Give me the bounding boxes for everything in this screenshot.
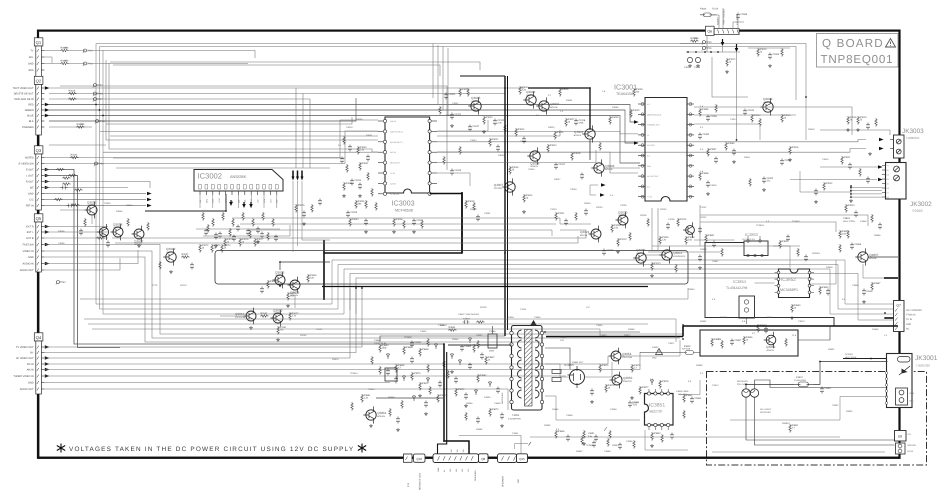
svg-text:R3203: R3203 (596, 206, 603, 209)
svg-text:Q3852: Q3852 (766, 345, 776, 349)
svg-text:TP27: TP27 (97, 98, 103, 101)
svg-text:Q3005: Q3005 (471, 96, 481, 100)
wire left trunk to bottom border (38, 394, 40, 457)
IC IC3001 TEA6415C body (645, 98, 687, 202)
svg-text:R3206: R3206 (662, 236, 669, 239)
svg-text:R3040: R3040 (446, 114, 453, 117)
svg-text:R3045: R3045 (498, 154, 505, 157)
svg-text:D3855: D3855 (484, 396, 491, 399)
svg-text:AUDIO OUT: AUDIO OUT (20, 388, 34, 391)
svg-text:SIF: SIF (30, 187, 34, 190)
svg-text:BONTB: BONTB (637, 252, 645, 255)
components around Q3001 Q3002 (519, 86, 521, 95)
resistors R3075-R3077 below IC3002 (224, 238, 226, 247)
connector JK3002 (886, 163, 907, 200)
svg-text:SPEAKER +: SPEAKER + (474, 469, 477, 481)
IC3002 bold jumper arrows (292, 171, 294, 178)
svg-text:C3857: C3857 (734, 339, 741, 342)
svg-text:DEGAUSS COIL: DEGAUSS COIL (419, 472, 422, 490)
svg-text:SCL: SCL (29, 56, 34, 59)
svg-text:R3012: R3012 (729, 58, 736, 61)
thick wire bottom rail (39, 457, 900, 459)
svg-text:TL431ACLPM: TL431ACLPM (726, 286, 747, 290)
svg-text:G8: G8 (898, 435, 902, 439)
junction dot row under Q6 (686, 51, 740, 53)
parts below IC3851 row (581, 436, 583, 445)
svg-text:R3895: R3895 (544, 424, 551, 427)
wire bus into IC3003 pin row 131 (100, 130, 378, 132)
wire mid rows to IC3001 area (113, 157, 345, 159)
svg-text:Q15: Q15 (519, 457, 525, 461)
resistors near Q3057 (84, 218, 86, 227)
title box Q BOARD (817, 34, 899, 68)
svg-text:R3865: R3865 (406, 346, 413, 349)
extra parts upper middle (444, 93, 448, 100)
wire Q2 green row (49, 110, 634, 143)
svg-text:R3874: R3874 (602, 364, 609, 367)
connector Q5 (34, 214, 43, 222)
svg-text:C3049: C3049 (570, 188, 577, 191)
svg-text:R3856: R3856 (746, 336, 753, 339)
svg-text:C3206: C3206 (668, 218, 675, 221)
transistor Q3854 (611, 351, 621, 361)
wire Q5-Q4 trunk (38, 272, 40, 341)
cap C3801 in degauss box (820, 387, 824, 394)
wire long vertical x447 (60, 86, 447, 170)
wire right-top extra feeds (694, 107, 852, 135)
svg-text:BONTB: BONTB (574, 134, 582, 137)
svg-text:C3856: C3856 (534, 316, 541, 319)
wire Q4 row 369 (44, 352, 640, 370)
svg-text:C3066: C3066 (740, 13, 747, 16)
wire nets to JK3003 (694, 114, 796, 116)
svg-text:R3063: R3063 (352, 218, 359, 221)
wire right mid horizontals (700, 215, 868, 226)
svg-text:TP62: TP62 (60, 281, 66, 284)
fuse F3801 (794, 382, 814, 387)
svg-text:C3024: C3024 (354, 179, 361, 182)
svg-text:R3515: R3515 (784, 114, 791, 117)
svg-text:GND: GND (652, 357, 657, 360)
svg-text:R3864: R3864 (449, 326, 456, 329)
svg-text:D3860: D3860 (872, 328, 879, 331)
dashed AC section box (707, 372, 927, 466)
transistor Q3013 (273, 313, 283, 323)
svg-text:R3875: R3875 (634, 364, 641, 367)
transistor Q3015 (275, 275, 285, 285)
svg-text:R3024: R3024 (522, 86, 529, 89)
svg-text:Y1: Y1 (887, 165, 889, 168)
svg-text:R3060: R3060 (360, 146, 367, 149)
transistor Q3202 (686, 226, 695, 235)
svg-text:R3085: R3085 (612, 106, 619, 109)
wire protection box nets (640, 352, 682, 354)
svg-text:TV IN: TV IN (390, 172, 395, 175)
components near Q3019 (159, 261, 161, 270)
thick stub border 318 (885, 317, 898, 319)
svg-text:IC3002: IC3002 (198, 172, 223, 181)
wire IC3003 right nets (437, 120, 488, 131)
svg-text:C IN FUSE: C IN FUSE (736, 14, 739, 25)
transistor Q3861 (366, 410, 376, 420)
svg-text:D3854: D3854 (440, 324, 447, 327)
svg-text:VOUT: VOUT (218, 197, 221, 203)
svg-text:R3885: R3885 (874, 234, 881, 237)
svg-text:GND: GND (28, 382, 34, 385)
wire bus row 149 left of IC3003 (109, 63, 378, 152)
svg-text:R3854: R3854 (688, 288, 695, 291)
wire Q2 blk row (49, 98, 356, 121)
svg-text:C3091: C3091 (484, 212, 491, 215)
svg-text:DELTA EXT: DELTA EXT (390, 162, 401, 165)
svg-text:FB3801: FB3801 (782, 422, 790, 425)
svg-text:R3872: R3872 (458, 388, 465, 391)
wire Q6 feeds down (736, 52, 738, 140)
svg-text:C3863: C3863 (843, 217, 850, 220)
transistor Q3852 (766, 335, 776, 345)
svg-text:SPEAKER: SPEAKER (502, 476, 505, 487)
JK3002 pins (882, 165, 886, 167)
svg-text:R3880: R3880 (388, 396, 395, 399)
svg-text:C3312: C3312 (497, 119, 504, 122)
wire Q4 row 352 (44, 288, 356, 353)
svg-text:4.6: 4.6 (647, 185, 650, 188)
svg-text:R3885: R3885 (476, 428, 483, 431)
svg-text:AH-LOADY: AH-LOADY (760, 408, 772, 411)
svg-text:BONTB: BONTB (605, 168, 613, 171)
svg-text:P15: P15 (407, 482, 410, 487)
components in protection box (711, 338, 713, 347)
wire Q3 row 157 to IC3003 (44, 120, 378, 158)
svg-text:ANLYN: ANLYN (390, 120, 397, 123)
svg-text:IC3003: IC3003 (392, 199, 415, 208)
test points near Q2 (94, 84, 97, 87)
svg-text:BROWN: BROWN (908, 444, 917, 447)
svg-text:2SC2021B: 2SC2021B (235, 316, 246, 319)
protection box with Q3852 (700, 330, 798, 356)
svg-text:R3072: R3072 (202, 244, 209, 247)
transformer pin circles (510, 331, 513, 334)
junction dots various (95, 104, 97, 106)
svg-text:SWITCHING: SWITCHING (501, 392, 504, 404)
svg-text:C3869: C3869 (852, 284, 859, 287)
svg-text:R3873: R3873 (492, 408, 499, 411)
wire Q2 row 127 (49, 126, 92, 128)
svg-text:R3522: R3522 (826, 182, 833, 185)
svg-text:GREEN: GREEN (25, 109, 34, 112)
resistor network under IC3002 (202, 212, 204, 221)
gnd squiggle JK3003 (868, 152, 872, 156)
svg-text:C3068: C3068 (694, 66, 701, 69)
svg-text:C3898: C3898 (604, 450, 611, 453)
svg-text:V7: V7 (887, 192, 889, 195)
transistor Q3005 (471, 101, 481, 111)
connector Q6 top (706, 26, 715, 35)
svg-text:Q1: Q1 (36, 40, 42, 45)
extra parts left of IC3003 (343, 136, 345, 145)
svg-text:A5: A5 (887, 183, 889, 186)
svg-text:C3859: C3859 (566, 414, 573, 417)
svg-text:C3069: C3069 (772, 53, 779, 56)
svg-text:MELF-P32W: MELF-P32W (843, 220, 855, 223)
svg-text:R3514: R3514 (754, 114, 761, 117)
svg-text:DEGAUSS: DEGAUSS (760, 411, 771, 414)
svg-text:EXT R: EXT R (26, 226, 34, 229)
svg-text:BONTB: BONTB (472, 100, 480, 103)
svg-text:TP3850: TP3850 (404, 336, 412, 339)
transistor Q3011 (662, 250, 672, 260)
svg-text:C3052: C3052 (766, 177, 773, 180)
svg-text:Q3: Q3 (36, 148, 42, 153)
svg-text:R3870: R3870 (414, 372, 421, 375)
svg-text:BONTB: BONTB (274, 312, 282, 315)
wire extra top-left horizontals (110, 62, 480, 70)
components left of Q3851 (839, 230, 841, 239)
svg-text:C3043: C3043 (747, 109, 754, 112)
svg-text:S8: S8 (887, 196, 889, 199)
startup resistors (379, 344, 381, 353)
transistor Q3057 (87, 205, 97, 215)
svg-text:Q3861: Q3861 (377, 411, 387, 415)
svg-text:TYP6C W 16L: TYP6C W 16L (374, 342, 388, 345)
inductor rects left of Q3855 (552, 370, 561, 374)
IC IC3852 MC3458P1 (779, 269, 810, 298)
connector Q7 (894, 301, 905, 332)
svg-text:G6: G6 (887, 187, 889, 190)
svg-text:GND: GND (906, 323, 911, 326)
svg-text:R3027: R3027 (568, 118, 575, 121)
svg-text:C3047: C3047 (472, 125, 479, 128)
svg-text:BC847B: BC847B (377, 415, 385, 418)
connector JK3003 (894, 135, 905, 158)
svg-text:C3851: C3851 (414, 341, 421, 344)
wire Q5 rows to amp cluster (44, 226, 108, 228)
wire spur row 93.5 (303, 86, 505, 94)
svg-text:G3: G3 (887, 174, 889, 177)
wire IC3851 nets (679, 380, 701, 395)
staircase bus top-left of IC3003 (432, 44, 434, 99)
IC3003 pins right (432, 120, 437, 122)
wire Q7 feeds (845, 303, 894, 305)
svg-text:R3876: R3876 (608, 384, 615, 387)
connector G14 bottom small (404, 454, 413, 462)
svg-text:R3071: R3071 (290, 292, 297, 295)
svg-text:R3044: R3044 (526, 194, 533, 197)
transistor Q3016 (290, 280, 300, 290)
caption asterisk left (57, 444, 65, 453)
svg-text:R3877: R3877 (642, 386, 649, 389)
svg-text:BY: BY (30, 352, 34, 355)
svg-text:L3851: L3851 (508, 316, 515, 319)
svg-text:C3318: C3318 (578, 119, 585, 122)
svg-text:Q3002: Q3002 (526, 90, 536, 94)
wire Q5 audio rows (44, 250, 138, 264)
transistor Q3001 (539, 101, 549, 111)
resistor R3012 under Q6 (726, 58, 728, 67)
svg-text:R3417: R3417 (292, 312, 299, 315)
svg-text:R OUT: R OUT (26, 181, 34, 184)
svg-text:R3882: R3882 (480, 374, 487, 377)
wire Q5 row fast-sw (44, 245, 683, 335)
warning triangle in title (886, 39, 896, 48)
svg-text:C3868: C3868 (860, 220, 867, 223)
svg-text:C3546: C3546 (520, 140, 527, 143)
svg-text:TP60: TP60 (98, 162, 104, 165)
svg-text:C3896: C3896 (626, 440, 633, 443)
svg-text:FAST SW: FAST SW (23, 244, 35, 247)
schematic outer border frame (38, 31, 900, 458)
svg-text:R3879: R3879 (332, 358, 339, 361)
svg-text:L OUT: L OUT (26, 175, 34, 178)
IC3003 pins left (378, 120, 383, 122)
extra parts audio row (555, 212, 557, 221)
IC3851 pins top and bottom (647, 392, 650, 395)
wire Q3 row 199 (44, 199, 146, 201)
svg-text:C3853: C3853 (560, 336, 567, 339)
IC3852 pins (777, 271, 780, 274)
svg-text:R3161: R3161 (280, 326, 287, 329)
svg-text:IC3854: IC3854 (733, 279, 747, 284)
svg-text:R3062: R3062 (346, 182, 353, 185)
connector Q1 (34, 38, 43, 46)
wire Q5 gnd (44, 257, 540, 342)
parts right of IC3002 (295, 204, 297, 213)
wire Q3-Q5 trunk (38, 210, 40, 222)
components near Q3013 (260, 315, 269, 317)
wire Q2 row 99 down to IC3002 (49, 99, 310, 168)
transistor Q3853 (612, 375, 622, 385)
svg-text:Q BOARD: Q BOARD (822, 37, 884, 50)
svg-text:R3801: R3801 (828, 348, 835, 351)
svg-text:F3802: F3802 (684, 345, 691, 348)
arrow into JK3003 pin1 (879, 138, 884, 142)
wire Q2 blue row (49, 116, 640, 164)
wire SMPS secondary nets (545, 331, 640, 333)
svg-text:C3046: C3046 (528, 168, 535, 171)
transistor Q3019 (166, 252, 176, 262)
wire bus row 140 left of IC3003 (106, 60, 378, 140)
svg-text:BONTB: BONTB (580, 234, 588, 237)
svg-text:R3043: R3043 (548, 126, 555, 129)
svg-text:R3210: R3210 (620, 238, 627, 241)
triangle marker above transformer (531, 320, 537, 325)
wire Q5 video in (44, 251, 680, 338)
svg-text:R3209: R3209 (614, 224, 621, 227)
svg-text:R3872: R3872 (624, 334, 631, 337)
wire IC3003 thick output (430, 194, 462, 254)
components around IC3851 (683, 394, 685, 403)
wire top bus 1 (96, 44, 806, 98)
svg-text:EXT B: EXT B (26, 237, 34, 240)
rounded section box audio (215, 251, 688, 285)
thick power rails to Q7 (546, 336, 683, 338)
svg-text:VIDEO IN: VIDEO IN (23, 250, 34, 253)
wire IC3003 right pin 152 to IC3001 (437, 152, 638, 173)
svg-text:400V: 400V (489, 350, 495, 353)
wire bus row 149 right of IC3003 (437, 149, 866, 153)
wire inside dashed box lower (712, 451, 885, 453)
svg-text:Q3021: Q3021 (580, 230, 590, 234)
svg-text:2SD1219A: 2SD1219A (622, 356, 633, 359)
svg-text:Q3019: Q3019 (166, 247, 176, 251)
wire Q4 row 376 (44, 375, 566, 377)
svg-text:2SC2021: 2SC2021 (494, 187, 504, 190)
svg-text:R3048: R3048 (584, 202, 591, 205)
svg-text:MCF40538: MCF40538 (395, 209, 413, 213)
svg-text:TY: TY (30, 50, 34, 53)
svg-text:AGC: AGC (212, 198, 215, 203)
svg-text:Q4: Q4 (36, 335, 42, 340)
svg-text:R3897: R3897 (576, 450, 583, 453)
wire Q1 net to TP area (88, 51, 255, 59)
wire Q3 row 205 (44, 205, 146, 207)
svg-text:R3208: R3208 (688, 236, 695, 239)
svg-text:LED/GRNTE: LED/GRNTE (673, 255, 686, 258)
svg-text:R3090: R3090 (470, 208, 477, 211)
svg-text:VOLTAGES TAKEN IN THE DC POWER: VOLTAGES TAKEN IN THE DC POWER CIRCUIT U… (69, 446, 354, 453)
wire Q3 row 193 into IC3002 arrows (44, 193, 146, 195)
svg-text:BLUE: BLUE (908, 450, 914, 453)
extra parts bottom middle (555, 430, 557, 439)
svg-text:AV1 IN: AV1 IN (390, 151, 396, 154)
svg-text:ON / STANDBY: ON / STANDBY (906, 309, 923, 312)
svg-text:C3040: C3040 (454, 169, 461, 172)
svg-text:Q3007: Q3007 (494, 183, 504, 187)
svg-text:TP3853: TP3853 (756, 224, 764, 227)
svg-text:BLUE: BLUE (27, 115, 34, 118)
svg-text:TP15: TP15 (87, 49, 93, 52)
svg-text:C3204: C3204 (550, 208, 557, 211)
svg-text:C3863: C3863 (464, 345, 471, 348)
svg-text:TP70: TP70 (152, 284, 158, 287)
IC3001 pins right (687, 103, 694, 105)
svg-text:R3887: R3887 (874, 282, 881, 285)
svg-text:R3028: R3028 (636, 88, 643, 91)
junction dots column JK3002 (850, 186, 852, 197)
svg-text:R3048: R3048 (574, 152, 581, 155)
connector Q10 bottom (414, 454, 426, 462)
svg-text:Q3854: Q3854 (622, 352, 632, 356)
svg-text:IC3001: IC3001 (614, 83, 637, 92)
svg-text:R3859: R3859 (822, 286, 829, 289)
wire vertical bus from Q1 area 1 (96, 44, 845, 305)
svg-text:IC3851: IC3851 (649, 403, 665, 409)
wire Q1 stub nets (44, 50, 60, 52)
svg-text:C3891: C3891 (632, 401, 639, 404)
wire mid nets from IC3002 to audio (232, 218, 560, 224)
wire IC3002 output rail (145, 210, 226, 212)
svg-text:AF VIDEO OUT: AF VIDEO OUT (16, 357, 34, 360)
thick wire to right border mid (884, 277, 898, 279)
svg-text:T3851: T3851 (512, 414, 520, 417)
svg-text:4.5: 4.5 (647, 103, 650, 106)
svg-text:R3518: R3518 (850, 116, 857, 119)
wire Q3 row 187 (44, 187, 128, 189)
svg-text:Q8: Q8 (481, 457, 485, 461)
components near Q3015 (267, 280, 269, 289)
svg-text:C3516: C3516 (822, 158, 829, 161)
svg-text:R3051: R3051 (366, 134, 373, 137)
svg-text:Q6: Q6 (707, 30, 712, 34)
components below IC3852 (819, 286, 821, 295)
components right column before JK3003 (847, 116, 849, 125)
svg-text:R2: R2 (887, 169, 889, 172)
wires degauss loop (814, 362, 888, 385)
svg-text:TEXT VIDEO OUT: TEXT VIDEO OUT (13, 87, 34, 90)
svg-text:2SB1243: 2SB1243 (623, 380, 632, 383)
svg-text:RED: RED (28, 104, 33, 107)
wire mid bus 253-278 staircase (350, 274, 858, 311)
